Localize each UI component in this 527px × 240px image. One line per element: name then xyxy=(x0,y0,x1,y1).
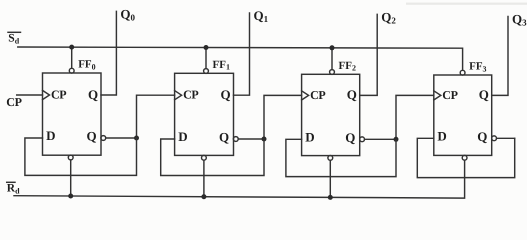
wire: S̄d line stub to set bubble of FF0 xyxy=(71,47,73,68)
wire: feedback Q̄ of FF3 to D of FF3 xyxy=(417,138,514,177)
set input bubble (top) of FF2 xyxy=(330,70,335,75)
wire: R̄d line stub to reset bubble of FF2 xyxy=(329,161,331,198)
wire: S̄d line stub to set bubble of FF1 xyxy=(205,48,207,69)
svg-text:Q: Q xyxy=(347,87,357,102)
reset input bubble (bottom) of FF0 xyxy=(68,155,73,160)
svg-text:CP: CP xyxy=(6,95,21,109)
reset input bubble (bottom) of FF3 xyxy=(462,155,467,160)
wire: Q output of FF3 up to Q3 terminal xyxy=(492,17,508,96)
wire: Q̄ output of FF3 to junction xyxy=(497,137,515,139)
node Rd: asynchronous reset line (R̄d) xyxy=(14,160,465,198)
wire: Q output of FF1 up to Q1 terminal xyxy=(234,13,250,95)
wire: R̄d line stub to reset bubble of FF1 xyxy=(203,160,205,196)
wire: Q output of FF0 up to Q0 terminal xyxy=(101,11,116,95)
scan artifact streak top right xyxy=(406,3,527,5)
svg-text:Q: Q xyxy=(219,130,229,145)
flip-flop FF1 (D flip-flop body) xyxy=(175,73,234,155)
flip-flop FF3 (D flip-flop body) xyxy=(434,75,492,155)
svg-text:CP: CP xyxy=(310,88,325,102)
reset input bubble (bottom) of FF2 xyxy=(328,156,333,161)
svg-text:CP: CP xyxy=(183,88,198,102)
svg-text:D: D xyxy=(46,128,55,143)
net label R̄d (reset input) xyxy=(7,182,20,195)
wire: feedback Q̄ of FF1 to D of FF1 xyxy=(161,139,264,176)
svg-text:Q: Q xyxy=(479,87,489,102)
net label S̄d (set input) xyxy=(8,32,21,45)
wire: Q̄ of FF1 up to CP of FF2 xyxy=(264,95,302,139)
wire: Q output of FF2 up to Q2 terminal xyxy=(360,14,378,95)
junction at Q̄ node of FF0 xyxy=(134,136,139,141)
set input bubble (top) of FF0 xyxy=(69,68,74,73)
inversion bubble on Q̄ output of FF1 xyxy=(233,137,238,142)
wire: Q̄ of FF2 up to CP of FF3 xyxy=(396,95,434,139)
wire: Q̄ of FF0 up to CP of FF1 xyxy=(137,95,175,138)
inversion bubble on Q̄ output of FF2 xyxy=(360,137,365,142)
junction on R̄d line at FF0 xyxy=(68,194,73,199)
wire: feedback Q̄ of FF0 to D of FF0 xyxy=(25,138,137,175)
svg-text:D: D xyxy=(437,129,446,144)
svg-text:CP: CP xyxy=(51,88,66,102)
wire: R̄d line stub to reset bubble of FF0 xyxy=(70,160,72,196)
wire: CP clock input to FF0 xyxy=(17,94,43,96)
flip-flop FF0 (D flip-flop body) xyxy=(43,73,102,155)
set input bubble (top) of FF3 xyxy=(460,70,465,75)
junction on S̄d line at FF1 xyxy=(204,45,209,50)
svg-text:Q: Q xyxy=(477,129,487,144)
junction on R̄d line at FF2 xyxy=(328,195,333,200)
junction at Q̄ node of FF2 xyxy=(394,137,399,142)
svg-text:Q: Q xyxy=(87,129,97,144)
svg-text:D: D xyxy=(178,129,187,144)
svg-text:CP: CP xyxy=(442,88,457,102)
wire: S̄d line stub to set bubble of FF2 xyxy=(331,48,333,70)
wire: feedback Q̄ of FF2 to D of FF2 xyxy=(286,139,396,176)
wire: Q̄ output of FF1 to junction xyxy=(238,138,264,140)
svg-text:Q: Q xyxy=(345,130,355,145)
set input bubble (top) of FF1 xyxy=(204,69,209,74)
inversion bubble on Q̄ output of FF3 xyxy=(492,136,497,141)
junction on R̄d line at FF1 xyxy=(201,194,206,199)
junction at Q̄ node of FF1 xyxy=(262,137,267,142)
wire: Q̄ output of FF0 to junction xyxy=(106,137,137,139)
junction on S̄d line at FF0 xyxy=(69,45,74,50)
node Sd: asynchronous set line (S̄d) xyxy=(18,47,463,70)
junction on S̄d line at FF2 xyxy=(330,45,335,50)
svg-text:Q: Q xyxy=(221,87,231,102)
svg-text:D: D xyxy=(305,130,314,145)
wire: Q̄ output of FF2 to junction xyxy=(365,138,396,140)
reset input bubble (bottom) of FF1 xyxy=(202,155,207,160)
flip-flop FF2 (D flip-flop body) xyxy=(302,74,360,155)
inversion bubble on Q̄ output of FF0 xyxy=(101,136,106,141)
svg-text:Q: Q xyxy=(88,87,98,102)
